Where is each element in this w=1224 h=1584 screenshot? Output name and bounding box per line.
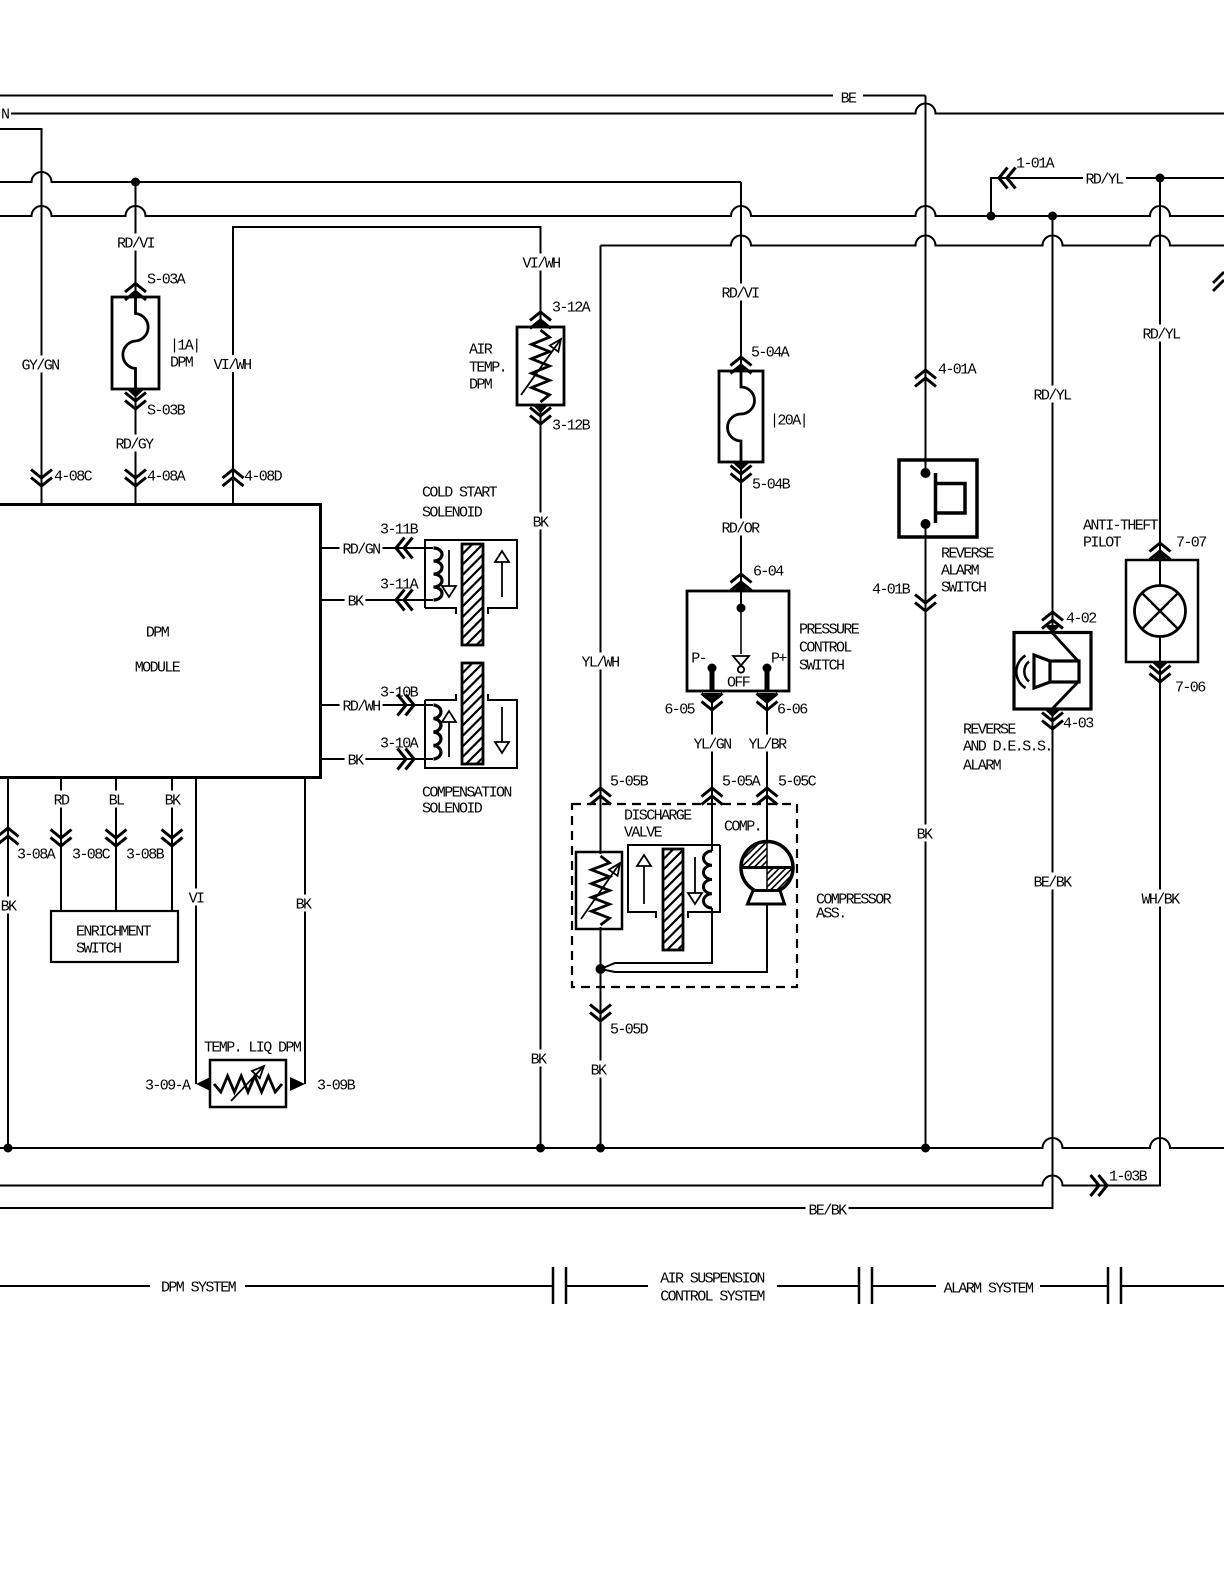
svg-text:4-08C: 4-08C (54, 468, 93, 485)
svg-text:DPM: DPM (469, 376, 493, 393)
section divider AIR SUSPENSION CONTROL SYSTEM (566, 1285, 648, 1287)
pin BK 3-10A to compensation solenoid (321, 758, 434, 760)
svg-text:3-10B: 3-10B (380, 684, 419, 701)
svg-text:BK: BK (348, 593, 364, 610)
svg-text:ALARM SYSTEM: ALARM SYSTEM (944, 1280, 1034, 1297)
connector 6-04 (731, 574, 752, 583)
svg-text:RD/VI: RD/VI (117, 235, 155, 252)
connector 4-01A (915, 370, 936, 379)
svg-text:BE: BE (841, 90, 857, 107)
wire BE/BK from alarm to bus (1044, 709, 1061, 717)
svg-text:OFF: OFF (727, 674, 750, 691)
svg-text:YL/BR: YL/BR (748, 736, 787, 753)
svg-text:SWITCH: SWITCH (941, 579, 986, 596)
svg-text:3-09B: 3-09B (317, 1077, 356, 1094)
air temp DPM sensor (variable resistor) (532, 320, 549, 328)
wire RD/GY (113, 435, 156, 452)
pin RD/WH 3-10B to compensation solenoid (321, 704, 434, 706)
svg-text:4-01B: 4-01B (872, 581, 911, 598)
svg-text:5-04B: 5-04B (752, 476, 791, 493)
compressor resistor (variable) (576, 852, 622, 929)
svg-text:ANTI-THEFT: ANTI-THEFT (1083, 517, 1159, 534)
svg-text:3-08C: 3-08C (72, 846, 111, 863)
DPM module (0, 505, 321, 778)
svg-text:5-04A: 5-04A (751, 344, 790, 361)
connector 4-08A (125, 478, 146, 487)
svg-text:RD/VI: RD/VI (721, 285, 759, 302)
wire corner to GY/GN drop (0, 129, 42, 505)
svg-text:BL: BL (109, 792, 125, 809)
svg-text:4-02: 4-02 (1066, 610, 1096, 627)
svg-text:S-03B: S-03B (147, 402, 186, 419)
reverse and D.E.S.S. alarm horn (1044, 625, 1061, 633)
svg-text:ENRICHMENT: ENRICHMENT (76, 923, 152, 940)
connector 1-03B arrow (1099, 1175, 1108, 1196)
wire 1-01A RD/YL (991, 178, 1083, 216)
fuse F1 (1A) DPM (127, 290, 144, 298)
fuse F2 (20A) (733, 364, 750, 372)
node P- (708, 664, 717, 673)
wire RD/YL drop to alarm (1052, 216, 1054, 625)
wire RD/OR (740, 462, 742, 591)
bus line 2 (0, 206, 1224, 216)
svg-text:S-03A: S-03A (147, 271, 186, 288)
svg-text:BK: BK (348, 752, 364, 769)
connector 7-07 (1150, 543, 1171, 552)
connector 4-02 (1042, 612, 1063, 621)
svg-text:|20A|: |20A| (770, 412, 807, 429)
pin BK 3-11A to cold start solenoid (321, 599, 434, 601)
pin RD/GN 3-11B to cold start solenoid (321, 547, 434, 549)
svg-text:DISCHARGE: DISCHARGE (624, 807, 692, 824)
svg-text:VI/WH: VI/WH (213, 357, 251, 374)
connector S-03A (125, 284, 146, 293)
svg-text:BK: BK (296, 896, 312, 913)
svg-text:3-12B: 3-12B (552, 417, 591, 434)
svg-text:COMP.: COMP. (724, 818, 761, 835)
svg-text:AIR SUSPENSION: AIR SUSPENSION (660, 1270, 764, 1287)
pin BL 3-08B to enrichment switch (115, 778, 117, 912)
svg-text:MODULE: MODULE (135, 659, 181, 676)
svg-text:ALARM: ALARM (941, 562, 980, 579)
node BK ground bus (921, 1144, 930, 1153)
svg-text:REVERSE: REVERSE (963, 721, 1016, 738)
svg-text:GY/GN: GY/GN (21, 357, 59, 374)
svg-text:N: N (1, 106, 9, 123)
wire VI to temp liq sensor (195, 778, 197, 1085)
svg-text:AND D.E.S.S.: AND D.E.S.S. (963, 738, 1052, 755)
wire RD/VI drop to fuse 20A (740, 182, 742, 371)
anti-theft pilot lamp (1152, 552, 1169, 561)
node on bus 2 at 1-01A stub (987, 212, 996, 221)
svg-text:RD/WH: RD/WH (342, 698, 380, 715)
svg-text:3-08B: 3-08B (126, 846, 165, 863)
wire BK from reverse alarm switch (925, 524, 927, 1148)
section divider ALARM SYSTEM (872, 1285, 936, 1287)
svg-text:DPM: DPM (170, 354, 194, 371)
svg-text:VI: VI (189, 890, 204, 907)
svg-text:DPM: DPM (146, 624, 170, 641)
svg-text:BK: BK (917, 826, 933, 843)
svg-text:DPM SYSTEM: DPM SYSTEM (161, 1279, 237, 1296)
svg-text:PILOT: PILOT (1083, 534, 1122, 551)
svg-text:4-01A: 4-01A (938, 361, 977, 378)
svg-text:BK: BK (1, 898, 17, 915)
connector 3-12B (530, 416, 551, 425)
svg-text:YL/GN: YL/GN (693, 736, 731, 753)
svg-text:3-11B: 3-11B (380, 521, 419, 538)
svg-text:7-07: 7-07 (1176, 534, 1206, 551)
wire solenoid return to junction (601, 908, 713, 969)
section boundary symbol 3 (1107, 1267, 1110, 1304)
node compressor assembly common (596, 964, 606, 974)
svg-text:COLD START: COLD START (422, 484, 498, 501)
enrichment switch (51, 911, 178, 962)
svg-text:3-11A: 3-11A (380, 576, 419, 593)
connector 3-12A (530, 312, 551, 321)
section boundary symbol 1 (552, 1267, 555, 1304)
svg-text:VALVE: VALVE (624, 824, 663, 841)
svg-text:BK: BK (533, 514, 549, 531)
svg-text:SWITCH: SWITCH (76, 940, 121, 957)
svg-text:VI/WH: VI/WH (522, 255, 560, 272)
svg-text:4-08A: 4-08A (147, 468, 186, 485)
pin BK 3-08A ground (7, 778, 9, 1149)
wire YL/WH drop to compressor assembly (600, 246, 602, 855)
svg-text:BE/BK: BE/BK (808, 1202, 847, 1219)
svg-text:RD/GN: RD/GN (342, 541, 380, 558)
svg-text:BK: BK (591, 1062, 607, 1079)
svg-text:4-03: 4-03 (1063, 715, 1094, 732)
svg-text:6-06: 6-06 (777, 701, 808, 718)
svg-text:7-06: 7-06 (1175, 679, 1206, 696)
svg-text:RD/YL: RD/YL (1033, 387, 1072, 404)
wire YL/GN from P- (704, 693, 721, 701)
section boundary symbol 2 (858, 1267, 861, 1304)
svg-text:REVERSE: REVERSE (941, 545, 994, 562)
wire YL/BR from P+ (759, 693, 776, 701)
connector 7-06 (1150, 674, 1171, 683)
connector S-03B (125, 401, 146, 410)
svg-text:CONTROL: CONTROL (799, 639, 852, 656)
pin BK to enrichment switch (171, 778, 173, 912)
wire N rail (11, 104, 1224, 114)
node bus2 to alarm drop (1048, 212, 1057, 221)
reverse alarm switch (899, 460, 977, 537)
ground bus A (0, 1138, 1224, 1148)
compensation solenoid (425, 694, 517, 768)
svg-text:COMPENSATION: COMPENSATION (422, 784, 511, 801)
svg-text:SWITCH: SWITCH (799, 657, 844, 674)
svg-text:P+: P+ (771, 650, 787, 667)
node switch common (737, 604, 746, 613)
svg-text:YL/WH: YL/WH (581, 654, 619, 671)
svg-text:5-05B: 5-05B (610, 773, 649, 790)
ground bus B 1-03B (0, 1176, 1105, 1186)
wire RD/YL drop to anti-theft pilot (1159, 178, 1161, 560)
svg-text:3-09-A: 3-09-A (145, 1077, 191, 1094)
svg-text:BK: BK (531, 1051, 547, 1068)
right edge connector arrow (1213, 280, 1224, 291)
svg-text:ASS.: ASS. (816, 905, 846, 922)
svg-text:BK: BK (165, 792, 181, 809)
svg-text:5-05A: 5-05A (722, 773, 761, 790)
svg-text:1-01A: 1-01A (1016, 155, 1055, 172)
node bus1/RD-VI junction (131, 178, 140, 187)
svg-text:SOLENOID: SOLENOID (422, 504, 483, 521)
connector 4-08C (31, 478, 52, 487)
bus line 1 (to RD/VI drops) (0, 172, 741, 182)
connector 5-05C (757, 788, 778, 797)
svg-text:RD/OR: RD/OR (721, 520, 760, 537)
connector 4-01B (915, 603, 936, 612)
svg-text:5-05D: 5-05D (610, 1021, 649, 1038)
connector 5-04B (731, 474, 752, 483)
svg-text:3-10A: 3-10A (380, 735, 419, 752)
node ground bus BK (4, 1144, 13, 1153)
svg-text:RD/YL: RD/YL (1142, 326, 1181, 343)
pin RD 3-08C to enrichment switch (60, 778, 62, 912)
svg-text:BE/BK: BE/BK (1033, 874, 1072, 891)
svg-text:3-12A: 3-12A (552, 299, 591, 316)
svg-text:AIR: AIR (469, 341, 493, 358)
node BK on ground bus (536, 1144, 545, 1153)
svg-text:P-: P- (691, 650, 706, 667)
svg-text:|1A|: |1A| (170, 337, 200, 354)
wire BK below air temp sensor (530, 513, 551, 530)
node RD/YL to pilot drop (1156, 174, 1165, 183)
svg-text:6-04: 6-04 (753, 563, 784, 580)
svg-text:PRESSURE: PRESSURE (799, 621, 860, 638)
svg-text:WH/BK: WH/BK (1141, 891, 1180, 908)
section divider DPM SYSTEM (0, 1285, 150, 1287)
connector 5-05D (590, 1013, 611, 1022)
svg-text:ALARM: ALARM (963, 757, 1002, 774)
wire BE top rail (0, 95, 833, 97)
node YL/WH ground bus (596, 1144, 605, 1153)
wire RD/VI drop to fuse 1A (135, 182, 137, 297)
wire WH/BK from pilot (1105, 662, 1160, 1186)
svg-text:SOLENOID: SOLENOID (422, 800, 483, 817)
wire motor return to junction (601, 903, 768, 972)
svg-text:TEMP.: TEMP. (469, 359, 506, 376)
svg-text:TEMP. LIQ DPM: TEMP. LIQ DPM (204, 1039, 302, 1056)
wire BE drop to reverse alarm switch (925, 96, 927, 474)
connector 5-05B (590, 788, 611, 797)
wire BK from temp liq sensor (304, 778, 306, 1085)
svg-text:RD/YL: RD/YL (1085, 171, 1124, 188)
svg-text:6-05: 6-05 (664, 701, 695, 718)
wire VI/WH from DPM module to air temp sensor (233, 227, 541, 505)
svg-text:RD/GY: RD/GY (115, 436, 154, 453)
node P+ (763, 664, 772, 673)
connector 4-08D (223, 470, 244, 479)
svg-text:1-03B: 1-03B (1109, 1168, 1148, 1185)
svg-text:4-08D: 4-08D (244, 468, 283, 485)
connector 5-04A (731, 357, 752, 366)
pressure control switch (733, 583, 750, 592)
svg-text:RD: RD (54, 792, 70, 809)
svg-text:5-05C: 5-05C (778, 773, 817, 790)
connector 5-05A (702, 788, 723, 797)
svg-text:CONTROL SYSTEM: CONTROL SYSTEM (660, 1288, 765, 1305)
bus line 3 (601, 236, 1224, 246)
svg-text:3-08A: 3-08A (17, 846, 56, 863)
compressor assembly enclosure (dashed) (572, 804, 797, 987)
